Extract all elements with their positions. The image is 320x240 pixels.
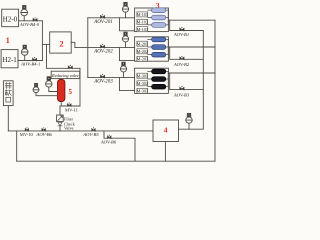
valve group3 actuator [122,62,125,65]
valve AOV-B4-1 bowtie [32,58,36,61]
svg-text:M-103: M-103 [137,27,148,32]
wire right outlet bus [214,20,216,161]
tank M-302 label box [137,81,148,86]
wire vent riser [7,106,9,131]
valve AOV-B2 bowtie [180,57,185,60]
svg-text:Reducing valve: Reducing valve [51,73,79,78]
wire AOV-B1 line [170,20,204,30]
H2 cylinder H2-0 [2,9,19,27]
wire AOV-B3 line [170,73,204,90]
wire reducing downcomer [79,68,81,106]
valve reducing bowtie [68,66,72,69]
valve MV-10 bowtie [25,128,29,131]
wire supply bus [87,18,89,78]
wire H2 manifold bus [41,21,43,61]
wire box4 bottom drop [164,142,166,162]
tank capsule M-303 [148,84,169,89]
svg-text:AOV-B6: AOV-B6 [100,140,117,145]
valve AOV-202 bowtie [100,45,104,48]
wire H2-1 outlet [18,60,42,62]
group 1 storage rack [135,8,169,32]
svg-text:2: 2 [59,39,63,49]
wire AOV-201 line [88,17,135,19]
box 2 regulator panel [50,32,71,53]
wire group3 outlet [168,72,215,74]
svg-text:AOV-203: AOV-203 [93,80,113,85]
svg-text:H2-0: H2-0 [3,15,18,23]
tank capsule M-103 [148,23,169,28]
H2 cylinder H2-1 [1,50,18,68]
wire box2 outlet [71,42,88,47]
wire box2 inlet [42,43,49,45]
wire reducing branch [47,44,81,68]
tank capsule M-101 [148,8,169,13]
wire check valve drop [59,126,61,131]
svg-text:4: 4 [164,126,168,135]
wire main bottom line [8,130,153,132]
valve AOV-B4-1 body [21,49,28,61]
svg-text:AOV-202: AOV-202 [93,50,113,55]
tank M-301 label box [137,73,148,78]
vent port box 排放口 [3,81,13,106]
valve group2 body [122,36,128,48]
wire AOV-203 line [88,77,135,79]
svg-text:H2-1: H2-1 [2,56,17,64]
tank M-202 label box [137,49,148,54]
tank M-201 label box [137,41,148,46]
wire group3 bypass [120,78,135,91]
valve AOV-201 bowtie [100,15,104,18]
svg-text:Filter: Filter [64,116,74,121]
wire H2-0 outlet [19,20,43,22]
wire bottom return bus [17,160,215,162]
svg-text:M-202: M-202 [137,49,148,54]
svg-text:MV-11: MV-11 [65,107,79,112]
wire group3 collector [167,71,169,86]
group 2 storage rack [135,37,169,61]
svg-text:M-203: M-203 [137,57,148,62]
svg-text:AOV-B5: AOV-B5 [82,132,99,137]
svg-text:M-302: M-302 [137,81,148,86]
valve AOV-B6b bowtie [107,136,111,139]
wire AOV-B6b branch [104,131,135,161]
wire group2 bypass [120,48,135,61]
wire group1 bypass [120,18,135,31]
valve AOV-B4-1 actuator [23,45,26,48]
svg-text:M-101: M-101 [137,12,148,17]
svg-text:M-201: M-201 [137,41,148,46]
tank M-303 label box [137,88,148,93]
check valve CV1 [58,122,62,126]
tank capsule M-302 [148,77,169,82]
svg-text:AOV-201: AOV-201 [93,20,113,25]
svg-text:M-102: M-102 [137,19,148,24]
valve group3 body [120,66,126,78]
wire group1 outlet [168,19,215,21]
tank capsule M-301 [148,69,169,74]
wire AOV-202 line [88,47,135,49]
valve MV-11 bowtie [67,104,71,107]
tank capsule M-202 [148,45,169,50]
wire MV-11 line [61,105,80,107]
wire box4 right line [179,31,204,130]
valve AOV-B6 bowtie [42,128,46,131]
valve group1 body [122,6,128,18]
tank 5 buffer vessel [58,80,65,102]
svg-text:5: 5 [68,88,72,96]
wire AOV-B2 line [170,47,204,59]
valve tank5 lower actuator [35,84,38,87]
svg-text:Valve: Valve [64,126,74,131]
svg-text:MV-10: MV-10 [20,132,34,137]
svg-text:AOV-B4-1: AOV-B4-1 [20,62,40,67]
valve tank5 upper actuator [47,77,50,80]
valve tank5 upper body [46,81,58,92]
tank M-103 label box [137,27,148,32]
valve AOV-B1 bowtie [180,28,185,31]
valve tank5 lower body [33,87,57,96]
wire group1 collector [167,10,169,25]
filter F1 [57,115,64,122]
svg-text:AOV-B3: AOV-B3 [173,92,190,97]
tank capsule M-102 [148,15,169,20]
valve AOV-B4-0 body [21,9,28,21]
valve AOV-B5 bowtie [92,128,96,131]
svg-text:AOV-B4-0: AOV-B4-0 [19,22,40,27]
valve box4 body [186,117,192,129]
tank M-102 label box [137,19,148,24]
svg-text:M-301: M-301 [137,73,148,78]
tank M-101 label box [137,12,148,17]
valve group2 actuator [124,32,127,35]
reducing valve label box [51,71,79,78]
svg-text:AOV-B6: AOV-B6 [36,132,53,137]
svg-text:AOV-B2: AOV-B2 [173,62,190,67]
svg-text:1: 1 [6,36,10,45]
wire group2 collector [167,39,169,54]
label Check Valve [64,122,76,131]
box 4 fuel cell [153,120,179,142]
tank capsule M-203 [148,52,169,57]
group 3 storage rack [135,68,169,93]
valve AOV-B4-0 actuator [23,6,26,9]
valve AOV-B3 bowtie [180,87,185,90]
wire group2 outlet [168,46,215,48]
tank M-203 label box [137,56,148,61]
valve box4 actuator [187,113,190,116]
wire vent branch drop [16,131,18,161]
valve AOV-B4-0 bowtie [33,18,37,21]
svg-text:M-303: M-303 [137,89,148,94]
wire filter drop [59,106,61,115]
tank capsule M-201 [148,37,169,42]
valve AOV-203 bowtie [100,75,104,78]
wire tank5 bottom stub [60,102,62,107]
svg-text:AOV-B1: AOV-B1 [173,32,189,37]
valve group1 actuator [124,2,127,5]
